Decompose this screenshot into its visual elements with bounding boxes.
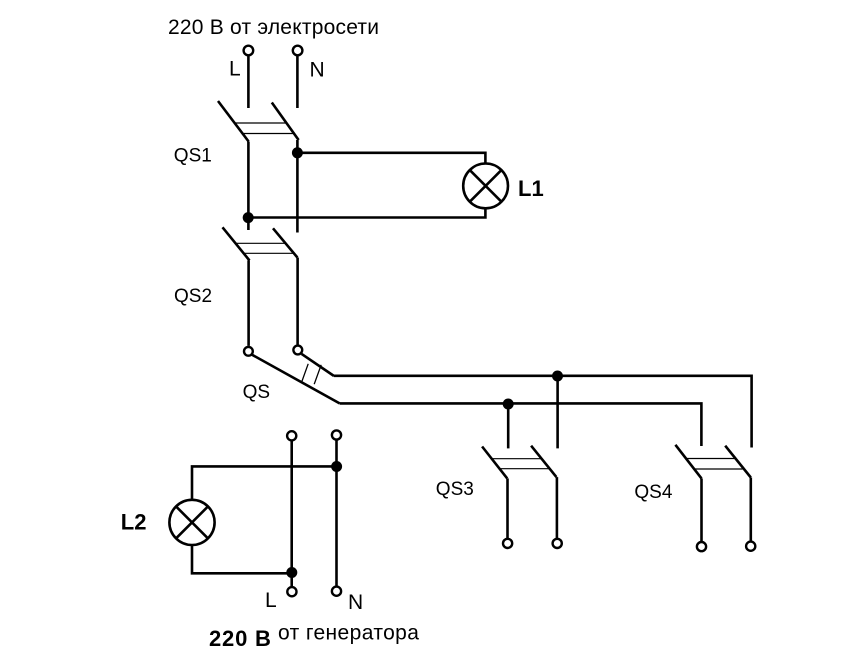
junction node B (L pole to lamp L1) (243, 212, 254, 223)
wire: QS2 left pole down (247, 261, 250, 346)
wire: L terminal down to QS1 (247, 56, 250, 108)
terminal N (mains) (293, 46, 303, 56)
changeover switch QS coupling tick 1 (301, 364, 308, 383)
switch QS3 coupling bar lower (500, 468, 550, 470)
changeover switch QS coupling tick 2 (314, 365, 321, 384)
switch QS2 coupling bar upper (236, 242, 286, 244)
switch QS4 coupling bar upper (686, 458, 736, 460)
switch QS4 left blade (675, 445, 701, 479)
wire: QS4 right pole down (749, 478, 752, 541)
switch QS4 coupling bar lower (693, 468, 742, 470)
terminal circle QS4 right (746, 542, 755, 551)
switch QS2 coupling bar lower (244, 252, 294, 254)
switch QS3 right blade (531, 446, 556, 477)
wire: node C down to QS3 right (556, 376, 559, 448)
svg-text:220 В: 220 В (209, 626, 272, 651)
wire: lower bus from QS to QS4 left pole (340, 403, 702, 446)
wire: QS3 right pole down (556, 477, 559, 538)
wire: generator N vertical (335, 440, 338, 585)
terminal L (mains) (244, 46, 254, 56)
switch QS2 left blade (223, 227, 250, 260)
switch QS1 right blade (272, 103, 299, 141)
junction node D (lower bus to QS3 left) (503, 399, 514, 410)
junction node C (upper bus to QS3 right) (552, 371, 563, 382)
switch QS3 left blade (482, 447, 507, 479)
wire: QS3 left pole down (506, 478, 509, 538)
switch QS3 coupling bar upper (492, 458, 542, 460)
svg-text:QS: QS (243, 382, 270, 403)
switch QS2 right blade (273, 228, 297, 257)
wire: lamp L1 bottom to node B (248, 209, 485, 218)
terminal N (generator) (332, 587, 341, 596)
contact circle QS left (244, 347, 253, 356)
wire: generator L vertical (290, 441, 293, 586)
wire: QS1 left pole down (247, 142, 250, 231)
svg-text:от генератора: от генератора (278, 622, 419, 645)
wire: upper bus from QS to QS4 right pole (334, 376, 752, 448)
generator contact circle L (upper) (287, 431, 296, 440)
wire: node A to lamp L1 top (297, 153, 485, 163)
wire: N terminal down to QS1 (296, 56, 299, 108)
svg-text:QS2: QS2 (174, 286, 212, 307)
switch QS1 coupling bar upper (235, 122, 287, 124)
svg-text:QS4: QS4 (634, 482, 672, 503)
contact circle QS right (293, 346, 302, 355)
terminal circle QS3 right (553, 539, 562, 548)
junction node F (N line to L2 loop) (331, 461, 342, 472)
switch QS1 coupling bar lower (243, 133, 295, 135)
svg-text:QS1: QS1 (174, 146, 212, 167)
wire: QS2 right pole down (296, 258, 299, 345)
svg-text:220 В от электросети: 220 В от электросети (168, 16, 379, 39)
terminal circle QS4 left (697, 542, 706, 551)
svg-text:L2: L2 (121, 510, 147, 535)
svg-text:L: L (265, 589, 277, 612)
terminal circle QS3 left (503, 539, 512, 548)
wire: QS1 right pole down (296, 140, 299, 233)
switch QS1 left blade (218, 101, 249, 142)
wire: lamp L2 top loop (192, 466, 337, 499)
junction node A (N pole to lamp L1) (292, 147, 303, 158)
wire: node D down to QS3 left (507, 404, 510, 448)
terminal L (generator) (287, 587, 296, 596)
svg-text:N: N (310, 59, 325, 82)
lamp L1 (463, 164, 508, 209)
svg-text:QS3: QS3 (436, 479, 474, 500)
wire: QS4 left pole down (700, 478, 703, 541)
switch QS4 right blade (725, 446, 751, 478)
changeover switch QS upper blade (302, 354, 334, 376)
generator contact circle N (upper) (332, 430, 341, 439)
changeover switch QS lower blade (252, 355, 340, 404)
wire: lamp L2 bottom loop to node E (192, 546, 292, 574)
svg-text:N: N (348, 591, 363, 614)
junction node E (L line to L2 loop) (286, 567, 297, 578)
lamp L2 (169, 500, 214, 545)
svg-text:L: L (229, 58, 241, 81)
svg-text:L1: L1 (518, 176, 544, 201)
